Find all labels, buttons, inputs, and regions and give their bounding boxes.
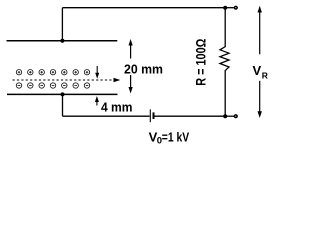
wire bottom left to battery [63,115,150,117]
minus signs [18,85,89,87]
terminal circle bottom [234,114,238,118]
20 mm dimension arrow down part [130,75,132,89]
VR arrow down [259,81,261,113]
small down arrow near charges [96,66,98,75]
wire right branch upper [224,8,226,47]
4 mm up arrow [96,100,98,106]
terminal circle top [234,6,238,10]
node dot top plate [60,39,64,43]
wire battery to bottom-right [155,115,226,117]
plus signs [18,71,89,74]
negative charge row [16,83,89,88]
svg-text:=1 kV: =1 kV [162,130,190,145]
battery V0 short plate [153,112,155,119]
wire bottom-left riser [62,94,64,116]
svg-text:20 mm: 20 mm [124,62,163,77]
junction dot top right [223,6,227,10]
wire stub to bottom terminal [225,115,234,117]
bottom plate [7,93,118,95]
svg-text:4 mm: 4 mm [101,100,133,115]
svg-text:R: R [262,71,268,81]
20 mm dimension arrow up part [130,44,132,59]
battery V0 long plate [149,109,151,122]
beam dashed line with arrow [13,79,117,81]
node dot bottom plate [61,92,65,96]
VR arrow up [259,11,261,54]
wire top horizontal [62,7,225,9]
junction dot bottom right [223,114,227,118]
top plate [7,40,118,42]
wire stub to top terminal [225,7,234,9]
positive charge row [16,70,89,75]
svg-text:V: V [253,63,262,78]
resistor R zigzag [220,47,229,71]
wire left riser to top plate [61,8,63,41]
wire right branch lower [224,70,226,116]
svg-text:R = 100Ω: R = 100Ω [193,39,208,86]
